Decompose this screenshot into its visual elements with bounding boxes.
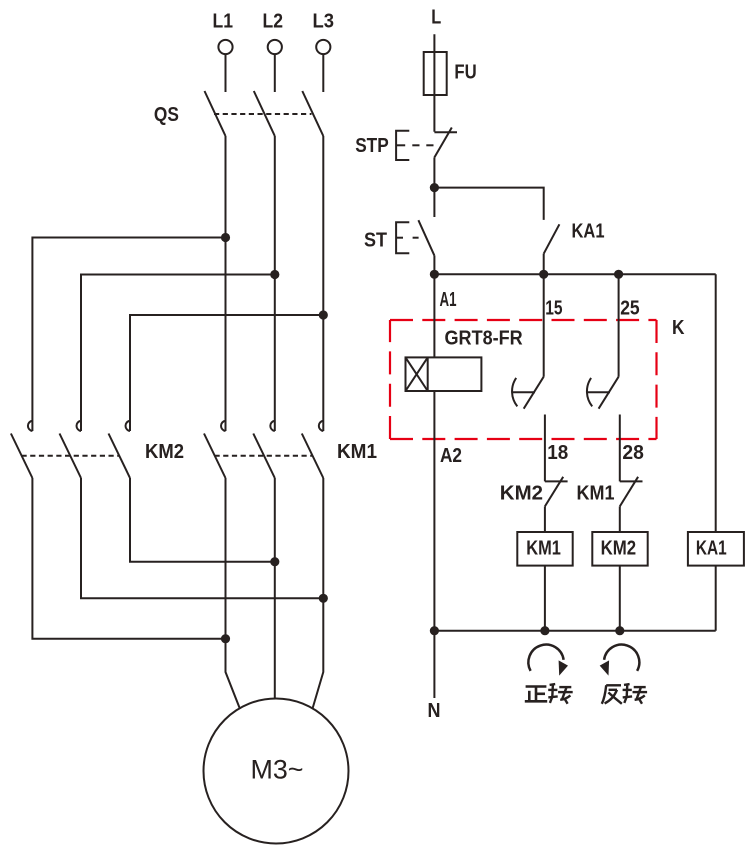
svg-text:FU: FU: [454, 62, 476, 84]
label L1: [213, 11, 234, 33]
wire KM2 coil to bottom bus: [619, 566, 621, 631]
coil KM1: [517, 532, 572, 566]
wire top bus: [434, 273, 715, 275]
svg-text:KM2: KM2: [500, 483, 543, 505]
svg-text:KM2: KM2: [601, 538, 637, 560]
label ST: [364, 229, 387, 251]
junction bus-25: [614, 270, 623, 279]
label coil KM2: [601, 538, 637, 560]
contact KM1 NC interlock: [620, 477, 643, 532]
wire 25 column: [618, 274, 620, 376]
svg-text:L: L: [431, 7, 441, 29]
wire 18 column: [544, 415, 546, 482]
label L: [431, 7, 441, 29]
label K: [672, 317, 685, 339]
pushbutton STP NC contact: [434, 128, 457, 158]
junction L2 tap: [270, 270, 279, 279]
svg-text:KA1: KA1: [572, 220, 605, 242]
svg-text:ST: ST: [364, 229, 387, 251]
wire 15 column: [543, 274, 545, 376]
label 反 (of 反转): [602, 685, 622, 704]
wire KM1 pole1 to motor: [226, 478, 241, 709]
rotation arrow forward (clockwise): [528, 645, 568, 676]
svg-text:GRT8-FR: GRT8-FR: [445, 328, 524, 350]
coil KM2: [592, 532, 647, 566]
wire KM2 pole3 to node V: [130, 478, 275, 562]
pushbutton STP actuator bracket: [396, 131, 433, 160]
junction bus-15: [539, 270, 548, 279]
contact KM2 pole 2: [60, 421, 82, 478]
junction bus-KM2coil: [615, 626, 624, 635]
timer coil K: [406, 357, 482, 391]
contact KM2 linkage dashed: [22, 455, 120, 457]
junction bus-A1: [430, 270, 439, 279]
switch QS pole 2 blade: [254, 91, 275, 136]
junction bus-KM1coil: [540, 626, 549, 635]
wire N tail: [433, 631, 435, 698]
timer K boundary (red dashed box): [390, 320, 657, 439]
wire KM2 pole2 to node W: [81, 478, 323, 598]
wire L down through fuse: [433, 34, 435, 132]
wire KM1 pole2 to motor: [274, 478, 276, 699]
svg-text:STP: STP: [355, 135, 389, 157]
junction bus-N: [430, 626, 439, 635]
junction L1 tap: [221, 233, 230, 242]
wire A1 to coil: [433, 274, 435, 357]
svg-text:QS: QS: [154, 104, 179, 126]
terminal L2: [268, 40, 282, 92]
label KM1 (main contacts): [337, 441, 377, 463]
motor M3~: [204, 699, 349, 844]
wire L1 vertical: [225, 136, 227, 431]
contact KM2 pole 1: [11, 421, 33, 478]
svg-text:A2: A2: [440, 445, 462, 467]
contact KM1 pole 1: [204, 421, 226, 478]
svg-text:N: N: [428, 700, 441, 722]
label KA1 (contact): [572, 220, 605, 242]
coil KA1: [688, 532, 744, 566]
svg-text:M3~: M3~: [251, 755, 304, 785]
pushbutton ST NO contact: [418, 220, 434, 274]
label coil KA1: [696, 538, 727, 560]
label KM1 (interlock contact): [577, 483, 615, 505]
contact KM2 NC interlock: [545, 477, 568, 532]
junction node U: [221, 634, 230, 643]
svg-text:KA1: KA1: [696, 538, 727, 560]
label QS: [154, 104, 179, 126]
contact KM1 pole 2: [253, 421, 274, 478]
label M3~: [251, 755, 304, 785]
junction node W: [319, 594, 328, 603]
svg-text:KM1: KM1: [577, 483, 615, 505]
label L3: [313, 11, 335, 33]
contact KM2 pole 3: [109, 421, 131, 478]
svg-text:KM2: KM2: [145, 441, 184, 463]
wire 28 column: [619, 415, 621, 482]
svg-text:KM1: KM1: [337, 441, 377, 463]
contact KM1 linkage dashed: [215, 455, 313, 457]
wire KA1 coil to bottom bus: [715, 566, 717, 631]
label KM2 (main contacts): [145, 441, 184, 463]
wire KM2 pole1 to node U: [32, 478, 225, 639]
svg-text:28: 28: [622, 442, 644, 464]
terminal L1: [218, 40, 232, 92]
svg-text:L2: L2: [263, 11, 284, 33]
label GRT8-FR: [445, 328, 524, 350]
junction node 1: [430, 183, 439, 192]
wire node 1 to KA1 branch: [434, 188, 543, 220]
label FU: [454, 62, 476, 84]
label KM2 (interlock contact): [500, 483, 543, 505]
wire STP to node 1: [433, 158, 435, 217]
svg-text:25: 25: [620, 297, 640, 319]
wire KM1 coil to bottom bus: [544, 566, 546, 631]
svg-text:K: K: [672, 317, 685, 339]
switch QS linkage dashed: [214, 113, 312, 115]
wire right rail to KA1 coil: [715, 274, 717, 532]
wire tap L1 to KM2 pole1: [32, 238, 225, 432]
svg-text:L3: L3: [313, 11, 335, 33]
timed contact 25-28: [587, 377, 619, 409]
svg-text:A1: A1: [440, 289, 457, 311]
wire tap L2 to KM2 pole2: [81, 275, 275, 432]
label pin 15: [545, 297, 562, 319]
label pin A1: [440, 289, 457, 311]
wire KM1 pole3 to motor: [312, 478, 323, 709]
label pin 28: [622, 442, 644, 464]
switch QS pole 1 blade: [205, 91, 226, 136]
contact KM1 pole 3: [302, 421, 324, 478]
wire L2 vertical: [274, 136, 276, 431]
contact KA1 NO: [544, 224, 560, 274]
wire tap L3 to KM2 pole3: [130, 315, 323, 431]
junction node V: [270, 557, 279, 566]
label L2: [263, 11, 284, 33]
switch QS pole 3 blade: [302, 91, 323, 136]
wire L3 vertical: [322, 136, 324, 431]
wire A2 down to bottom bus: [433, 391, 435, 631]
label N: [428, 700, 441, 722]
label pin 18: [547, 442, 568, 464]
svg-text:18: 18: [547, 442, 568, 464]
rotation arrow reverse (counter-clockwise): [600, 645, 640, 676]
svg-text:KM1: KM1: [526, 538, 561, 560]
label coil KM1: [526, 538, 561, 560]
label pin 25: [620, 297, 640, 319]
label STP: [355, 135, 389, 157]
label pin A2: [440, 445, 462, 467]
wire bottom bus: [434, 630, 715, 632]
junction L3 tap: [319, 310, 328, 319]
svg-text:15: 15: [545, 297, 562, 319]
svg-text:L1: L1: [213, 11, 234, 33]
label 正转 (forward): [525, 687, 547, 702]
fuse FU: [424, 52, 447, 95]
terminal L3: [316, 40, 330, 92]
label 转 (of 反转): [623, 684, 648, 704]
pushbutton ST actuator bracket: [396, 222, 419, 253]
timed contact 15-18: [512, 377, 544, 409]
label 转 (of 正转): [548, 684, 573, 704]
